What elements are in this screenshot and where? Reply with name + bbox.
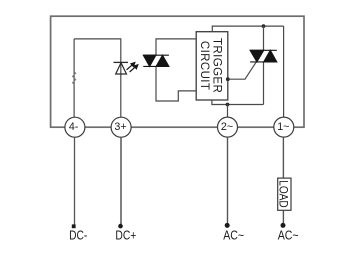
LED light arrow 2 [130, 65, 138, 72]
terminal 3+ [111, 117, 131, 137]
label LOAD [276, 180, 290, 208]
svg-text:DC+: DC+ [115, 228, 136, 243]
wire: DC+ lead [120, 137, 122, 225]
label TRIGGER CIRCUIT [198, 38, 223, 93]
wire: AC~ lead (2~) [227, 137, 229, 223]
terminal 1~ [274, 117, 294, 137]
wire: diac branch top horizontal to trigger box [156, 39, 196, 55]
LED light arrow 1 [127, 63, 135, 70]
wire: triac gate diagonal [228, 62, 256, 79]
wire: triac MT1 vertical down [263, 62, 265, 105]
wire: trigger box bottom output [212, 100, 264, 105]
LED D1 triangle [116, 63, 127, 74]
outer SSR box [51, 16, 304, 127]
wire: trigger box top stub to top rail [212, 26, 283, 32]
terminal pin DC- (square) [72, 224, 76, 228]
trigger circuit box U1 [196, 32, 228, 100]
svg-text:DC-: DC- [69, 228, 87, 243]
terminal pin AC~ left (dot) [225, 223, 230, 228]
terminal pin DC+ (dot) [118, 224, 123, 229]
wire: down to terminal 2~ [227, 105, 229, 118]
terminal 4- [65, 117, 85, 137]
svg-text:4-: 4- [69, 121, 79, 133]
wire: DC- lead [74, 137, 76, 225]
LED D1 cathode bar [114, 61, 129, 63]
svg-text:1~: 1~ [277, 121, 289, 133]
triac Q1 [250, 50, 277, 62]
terminal 2~ [218, 117, 238, 137]
diac D2 (photo-diac) [143, 55, 169, 66]
wire: diac branch bottom jog into trigger box [156, 66, 196, 101]
node: junction dot above terminal 2~ [226, 103, 230, 107]
svg-text:LOAD: LOAD [276, 180, 290, 208]
svg-text:TRIGGER: TRIGGER [211, 38, 223, 93]
svg-text:AC~: AC~ [278, 228, 299, 243]
node: triac top junction dot [262, 24, 266, 28]
terminal pin AC~ right (dot) [281, 223, 286, 228]
wire: triac MT2 vertical [263, 26, 265, 50]
wire: left input branch vertical (4- up) [73, 39, 75, 117]
load box [278, 178, 291, 210]
wire: 1~ lead upper to LOAD [282, 137, 284, 178]
svg-text:CIRCUIT: CIRCUIT [198, 41, 210, 90]
wire: LOAD to AC~ pin [282, 210, 284, 223]
node: gate junction dot at trigger box edge [226, 77, 230, 81]
svg-text:2~: 2~ [221, 121, 233, 133]
wire: input branch top horizontal to LED [74, 39, 121, 117]
wire: right rail down to terminal 1~ [283, 26, 285, 117]
svg-text:AC~: AC~ [223, 228, 244, 243]
svg-text:3+: 3+ [114, 121, 126, 133]
resistor R1 (tiny zigzag on left wire) [73, 72, 76, 85]
